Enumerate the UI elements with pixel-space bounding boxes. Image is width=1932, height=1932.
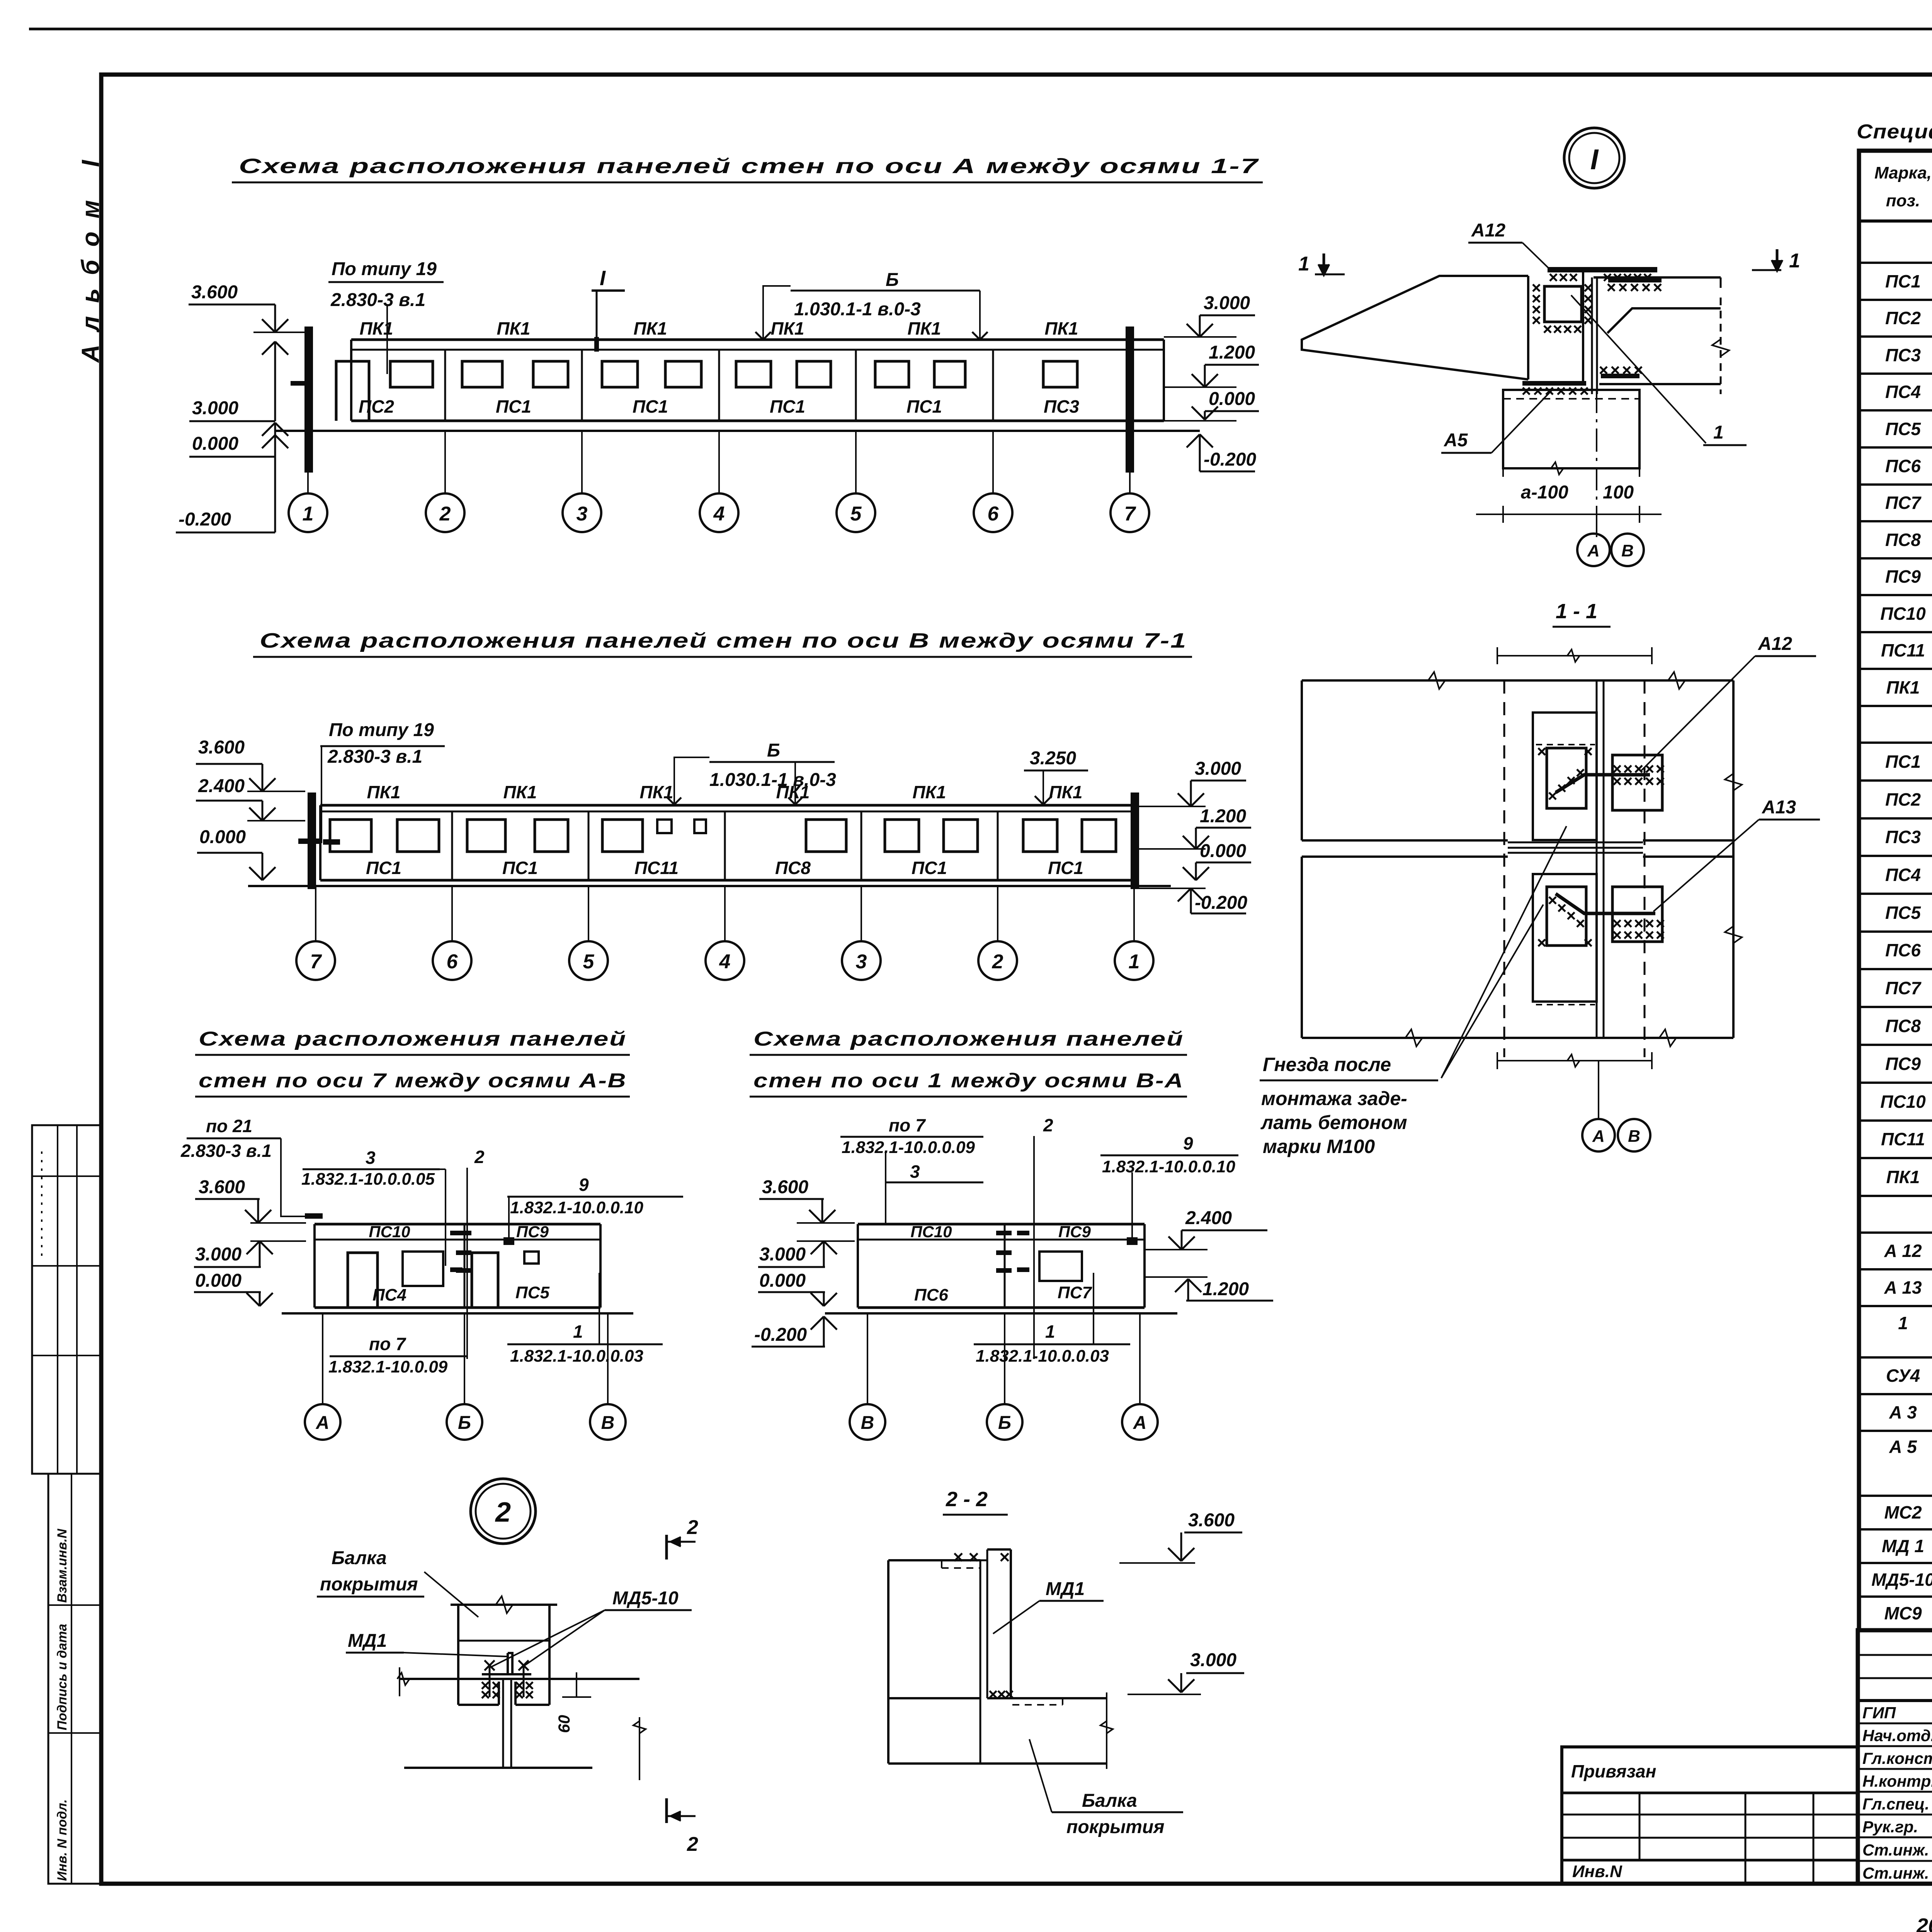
scheme 1 window opening: [602, 361, 638, 387]
svg-text:ПС11: ПС11: [1881, 1129, 1925, 1149]
band right edge: [599, 1224, 602, 1308]
svg-text:ПС7: ПС7: [1885, 493, 1922, 513]
svg-text:1: 1: [1298, 253, 1310, 275]
svg-text:1.832.1-10.0.0.05: 1.832.1-10.0.0.05: [301, 1170, 435, 1189]
spec row СУ4: [1859, 1393, 1932, 1395]
scheme 1 ground line: [275, 430, 1200, 432]
node I top anchor plate A12: [1548, 267, 1657, 272]
svg-text:А 5: А 5: [1889, 1437, 1917, 1457]
spec table frame: [1859, 151, 1932, 1630]
svg-text:Марка,: Марка,: [1874, 163, 1932, 182]
scheme 2 window opening: [1023, 820, 1057, 852]
node 2 section flag bottom: [665, 1798, 668, 1823]
svg-text:ПС5: ПС5: [515, 1283, 549, 1302]
svg-text:Н.контр.: Н.контр.: [1862, 1772, 1932, 1790]
svg-text:Балка: Балка: [1082, 1791, 1137, 1811]
node I section flag 1 left: [1323, 253, 1325, 275]
node 2 beam box: [451, 1604, 557, 1606]
svg-text:ПС4: ПС4: [1885, 382, 1921, 402]
svg-text:3.000: 3.000: [1204, 293, 1250, 313]
svg-text:1.832.1-10.0.0.10: 1.832.1-10.0.0.10: [1102, 1157, 1235, 1176]
scheme 2 window opening: [1082, 820, 1116, 852]
opening: [348, 1253, 378, 1308]
scheme 2 window opening: [397, 820, 439, 852]
left margin upper grid: [32, 1125, 102, 1474]
svg-text:покрытия: покрытия: [1066, 1817, 1165, 1837]
spec row ПС10: [1859, 1119, 1932, 1122]
scheme 2 band second line: [320, 811, 1134, 813]
svg-text:2: 2: [687, 1516, 698, 1539]
svg-text:А12: А12: [1758, 634, 1792, 654]
node I lower right plate: [1601, 374, 1639, 378]
scheme 2 panel joint at axis 2: [997, 811, 999, 880]
svg-text:Схема расположения панелей: Схема расположения панелей стен по оси А…: [239, 155, 1259, 178]
svg-text:ПК1: ПК1: [913, 782, 946, 802]
spec row ПС5: [1859, 930, 1932, 933]
scheme 1 roof slab line PK: [351, 338, 1164, 341]
svg-text:Схема расположения панелей: Схема расположения панелей стен по оси В…: [260, 629, 1187, 652]
svg-text:ПС6: ПС6: [1885, 940, 1921, 960]
spec row ПС7: [1859, 520, 1932, 522]
opening: [1039, 1252, 1082, 1281]
node 2 right extension: [639, 1717, 640, 1780]
scheme 2 window opening: [602, 820, 643, 852]
scheme 2 panel joint at axis 4: [724, 811, 726, 880]
scheme 2 axis line 1: [1133, 886, 1135, 941]
scheme 2 panel joint at axis 5: [588, 811, 590, 880]
svg-text:60: 60: [555, 1715, 573, 1733]
svg-text:А 3: А 3: [1889, 1402, 1917, 1422]
section 2-2 dashed recess: [942, 1567, 980, 1569]
title block frame: [1858, 1630, 1932, 1884]
svg-text:3.000: 3.000: [1195, 759, 1241, 779]
axis circle А: [305, 1404, 340, 1440]
svg-text:0.000: 0.000: [1209, 389, 1255, 409]
spec row ПС6: [1859, 968, 1932, 970]
svg-text:ПС5: ПС5: [1885, 903, 1921, 923]
svg-text:1: 1: [1129, 951, 1140, 973]
svg-text:-0.200: -0.200: [179, 509, 231, 530]
svg-text:ПС2: ПС2: [1885, 789, 1921, 810]
scheme 1 band second line: [351, 349, 1164, 351]
opening: [403, 1252, 443, 1286]
spec row ПК1: [1859, 1195, 1932, 1197]
scheme 2 axis circle 4: [706, 941, 744, 980]
scheme 1 column at axis 7: [1126, 327, 1134, 473]
svg-text:ПК1: ПК1: [497, 318, 531, 338]
scheme 2 window opening: [944, 820, 978, 852]
svg-text:2: 2: [439, 503, 451, 525]
scheme 1 axis line 5: [855, 431, 857, 493]
spec row ПС8: [1859, 1044, 1932, 1046]
svg-text:20967-01: 20967-01: [1916, 1914, 1932, 1932]
axis line Б: [1004, 1313, 1005, 1404]
node 2 beam inner line MD1 level: [458, 1640, 549, 1642]
svg-text:ПС9: ПС9: [516, 1223, 549, 1241]
svg-text:МД1: МД1: [348, 1631, 387, 1651]
svg-text:3.000: 3.000: [1190, 1650, 1236, 1670]
svg-text:Б: Б: [998, 1413, 1011, 1433]
node 2 slab top line 3.000: [400, 1678, 639, 1680]
svg-text:0.000: 0.000: [192, 434, 238, 454]
svg-text:ПС11: ПС11: [634, 858, 679, 878]
svg-text:ПК1: ПК1: [1045, 318, 1078, 338]
spec row ПК1: [1859, 705, 1932, 707]
node 2 weld crosses right: [516, 1682, 523, 1689]
band bottom line: [858, 1306, 1145, 1309]
scheme 2 panel joint at axis 3: [861, 811, 862, 880]
scheme 1 axis line 3: [581, 431, 583, 493]
svg-text:2: 2: [687, 1833, 698, 1855]
svg-text:I: I: [600, 267, 606, 290]
svg-text:7: 7: [310, 951, 322, 973]
spec row ПС2: [1859, 335, 1932, 338]
svg-text:ПС3: ПС3: [1044, 396, 1079, 417]
svg-text:ПК1: ПК1: [1049, 782, 1083, 802]
band strip line: [858, 1239, 1145, 1241]
scheme 2 axis line 3: [861, 886, 862, 941]
svg-text:1.832.1-10.0.0.03: 1.832.1-10.0.0.03: [976, 1347, 1109, 1366]
svg-text:Инв.N: Инв.N: [1572, 1862, 1622, 1881]
svg-text:стен по оси 1 между осями: стен по оси 1 между осями В-А: [753, 1070, 1184, 1092]
svg-text:По типу 19: По типу 19: [332, 259, 437, 279]
svg-text:ПС8: ПС8: [1885, 1016, 1921, 1036]
svg-text:СУ4: СУ4: [1886, 1366, 1920, 1386]
scheme 2 window opening: [694, 820, 706, 833]
scheme 1 panel joint at axis 3: [581, 350, 583, 421]
scheme 1 panel joint at axis 2: [444, 350, 446, 421]
svg-text:Гл.констр.: Гл.констр.: [1862, 1749, 1932, 1767]
svg-text:3: 3: [366, 1148, 376, 1168]
svg-text:Рук.гр.: Рук.гр.: [1862, 1818, 1918, 1836]
scheme 1 axis line 4: [718, 431, 720, 493]
note gnezda leaders: [1441, 826, 1566, 1078]
panel joint at axis B: [464, 1224, 466, 1308]
svg-text:ПС7: ПС7: [1885, 978, 1922, 998]
section 1-1 top dim line: [1497, 655, 1652, 656]
spec row А 12: [1859, 1268, 1932, 1270]
svg-text:5: 5: [850, 503, 862, 525]
spec row ПС4: [1859, 893, 1932, 895]
section 1-1 joint middle lines: [1508, 842, 1643, 844]
svg-text:МД 1: МД 1: [1882, 1536, 1924, 1556]
svg-text:3: 3: [577, 503, 588, 525]
spec row ПС7: [1859, 1006, 1932, 1008]
svg-text:100: 100: [1603, 482, 1634, 503]
svg-text:-0.200: -0.200: [754, 1325, 807, 1345]
spec row А 13: [1859, 1305, 1932, 1307]
opening: [524, 1252, 539, 1264]
svg-text:1.832.1-10.0.0.03: 1.832.1-10.0.0.03: [510, 1347, 643, 1366]
spec row A5 list: [1859, 1495, 1932, 1497]
section 2-2 dashed seat: [1012, 1704, 1063, 1706]
panel joint at axis B: [1004, 1224, 1006, 1308]
scheme 2 band right edge: [1133, 805, 1135, 880]
svg-text:ПС1: ПС1: [912, 858, 947, 878]
scheme 2 axis line 4: [724, 886, 726, 941]
scheme 2 axis line 7: [315, 886, 316, 941]
svg-text:А12: А12: [1471, 220, 1505, 241]
section 1-1 axis to circles: [1598, 1061, 1599, 1119]
scheme 2 column at axis 1: [1131, 793, 1139, 889]
svg-text:Схема расположения панелей: Схема расположения панелей: [753, 1028, 1184, 1050]
svg-text:ПС4: ПС4: [1885, 865, 1921, 885]
scheme 1 window opening: [875, 361, 909, 387]
svg-text:ПС10: ПС10: [1880, 604, 1926, 624]
scheme 2 ground line: [248, 885, 1171, 887]
svg-text:6: 6: [988, 503, 999, 525]
axis circle А: [1122, 1404, 1158, 1440]
svg-text:А: А: [1133, 1413, 1147, 1433]
node I bottom plate: [1522, 381, 1586, 386]
spec row ПС9: [1859, 1082, 1932, 1084]
scheme 2 panel joint at axis 6: [451, 811, 453, 880]
svg-text:3.600: 3.600: [198, 737, 245, 758]
svg-text:А 12: А 12: [1884, 1241, 1922, 1261]
node I section flag 1 right: [1776, 249, 1779, 271]
spec section header metal items: [1859, 1231, 1932, 1234]
node I dim line: [1503, 468, 1639, 469]
svg-text:3.000: 3.000: [192, 398, 238, 418]
scheme 1 axis line 7: [1129, 431, 1131, 493]
node 2 anchor plate MD1: [482, 1673, 531, 1675]
svg-text:1.200: 1.200: [1209, 342, 1255, 363]
svg-text:3.250: 3.250: [1030, 748, 1076, 769]
svg-text:2: 2: [474, 1147, 485, 1167]
svg-text:3.600: 3.600: [1188, 1510, 1235, 1531]
svg-text:Б: Б: [886, 270, 899, 290]
svg-text:Взам.инв.N: Взам.инв.N: [55, 1528, 70, 1603]
section 2-2 slab right end: [1106, 1692, 1107, 1769]
svg-text:1: 1: [1789, 250, 1800, 272]
section 1-1 lower right plate: [1612, 887, 1662, 942]
spec row ПС6: [1859, 483, 1932, 486]
node 2 panel bottom line: [404, 1767, 592, 1769]
scheme 2 axis circle 3: [842, 941, 881, 980]
svg-text:МД1: МД1: [1046, 1579, 1085, 1599]
svg-text:1.030.1-1 в.0-3: 1.030.1-1 в.0-3: [794, 299, 921, 320]
axis circle В: [850, 1404, 885, 1440]
joint section ticks: [996, 1231, 1012, 1235]
section 2-2 slab bottom: [888, 1762, 1107, 1765]
spec section header -30°С: [1859, 705, 1932, 707]
svg-text:ПК1: ПК1: [908, 318, 941, 338]
node I circle: [1564, 128, 1624, 188]
svg-text:ПС3: ПС3: [1885, 345, 1921, 365]
svg-text:3: 3: [910, 1162, 920, 1182]
svg-text:ПС2: ПС2: [1885, 308, 1921, 328]
svg-text:Ст.инж.: Ст.инж.: [1862, 1841, 1929, 1859]
scheme 1 window opening: [665, 361, 701, 387]
svg-text:В: В: [601, 1413, 615, 1433]
svg-text:А13: А13: [1762, 797, 1796, 818]
node 2 circle: [471, 1479, 536, 1544]
svg-text:I: I: [1590, 143, 1599, 175]
section 1-1 dashed panel edges: [1503, 680, 1505, 1057]
axis line А: [1139, 1313, 1141, 1404]
svg-text:6: 6: [447, 951, 458, 973]
scheme 2 axis line 5: [588, 886, 589, 941]
svg-text:ПС7: ПС7: [1058, 1283, 1092, 1302]
svg-text:МС9: МС9: [1884, 1603, 1922, 1623]
node 2 section flag top: [665, 1535, 668, 1560]
svg-text:1.200: 1.200: [1202, 1279, 1249, 1299]
svg-text:ПС10: ПС10: [1880, 1092, 1926, 1112]
svg-text:ПС10: ПС10: [910, 1223, 952, 1241]
scheme 2 window opening: [330, 820, 371, 852]
svg-text:3: 3: [856, 951, 867, 973]
svg-text:по 7: по 7: [889, 1115, 926, 1135]
svg-text:А: А: [1592, 1127, 1605, 1146]
svg-text:Подпись и дата: Подпись и дата: [55, 1624, 70, 1730]
svg-text:2: 2: [495, 1497, 511, 1528]
scheme 1 window opening: [1043, 361, 1077, 387]
svg-text:3.600: 3.600: [199, 1177, 245, 1197]
svg-text:ПС9: ПС9: [1885, 566, 1921, 587]
spec row ПС3: [1859, 372, 1932, 375]
axis line Б: [464, 1313, 465, 1404]
node I column I-beam flange: [1591, 277, 1593, 394]
axis line А: [322, 1313, 323, 1404]
svg-text:1.832.1-10.0.0.09: 1.832.1-10.0.0.09: [842, 1138, 975, 1157]
ground line: [825, 1312, 1177, 1315]
section 1-1 column center lines: [1596, 680, 1598, 1038]
svg-text:ПС3: ПС3: [1885, 827, 1921, 847]
node I right slab: [1594, 276, 1721, 279]
svg-text:1: 1: [303, 503, 314, 525]
svg-text:Привязан: Привязан: [1571, 1761, 1656, 1781]
spec row МД5-10: [1859, 1595, 1932, 1598]
scheme 2 band left edge: [319, 805, 321, 880]
svg-text:Схема расположения панелей: Схема расположения панелей: [199, 1028, 627, 1050]
svg-text:2.400: 2.400: [1185, 1208, 1232, 1228]
scheme 1 panel joint at axis 5: [855, 350, 857, 421]
ground line: [282, 1312, 633, 1315]
scheme 1 zero level tick: [291, 381, 311, 386]
scheme 2 window opening: [806, 820, 846, 852]
spec table header row line: [1859, 219, 1932, 223]
svg-text:3.600: 3.600: [191, 282, 238, 303]
scheme 1 window opening: [462, 361, 502, 387]
section 1-1 lower socket: [1533, 874, 1597, 1002]
svg-text:ПС9: ПС9: [1058, 1223, 1091, 1241]
scheme 2 zero level tick: [298, 838, 320, 844]
scheme 1 column at axis 1: [304, 327, 313, 473]
node 2 dim 60: [576, 1672, 577, 1697]
node 2 weld crosses left: [482, 1682, 489, 1689]
scheme 2 axis circle 2: [978, 941, 1017, 980]
spec row ПС4: [1859, 409, 1932, 412]
svg-text:Спецификация элементов стено: Спецификация элементов стеновых панелей …: [1857, 121, 1932, 143]
svg-text:монтажа заде-: монтажа заде-: [1261, 1088, 1407, 1109]
svg-text:1.030.1-1 в.0-3: 1.030.1-1 в.0-3: [709, 770, 836, 790]
svg-text:2.830-3 в.1: 2.830-3 в.1: [330, 290, 425, 310]
svg-text:7: 7: [1124, 503, 1136, 525]
scheme 1 window opening: [533, 361, 568, 387]
node I axis circles: [1596, 514, 1597, 534]
band top line: [315, 1223, 600, 1226]
title block person rows: [1858, 1723, 1932, 1725]
axis line В: [607, 1313, 609, 1404]
svg-text:1: 1: [1045, 1321, 1055, 1342]
svg-text:ПС10: ПС10: [369, 1223, 410, 1241]
section 2-2 slab top: [987, 1697, 1107, 1699]
scheme 1 axis circle 5: [837, 493, 875, 532]
axis circle Б: [987, 1404, 1022, 1440]
spec row 1 ugolok: [1859, 1356, 1932, 1359]
scheme 2 window opening: [467, 820, 505, 852]
spec row ПС11: [1859, 668, 1932, 670]
svg-text:ПС8: ПС8: [1885, 530, 1921, 550]
band right edge: [1143, 1224, 1146, 1308]
svg-text:ПК1: ПК1: [503, 782, 537, 802]
section 1-1 upper right plate: [1612, 755, 1662, 810]
spec row ПС8: [1859, 557, 1932, 560]
svg-text:ПС11: ПС11: [1881, 640, 1925, 660]
axis line В: [867, 1313, 868, 1404]
svg-text:ПС1: ПС1: [770, 396, 805, 417]
spec section header -20°С: [1859, 220, 1932, 222]
svg-text:1: 1: [1713, 422, 1724, 443]
spec row ПС1: [1859, 779, 1932, 782]
scheme 2 window opening: [535, 820, 568, 852]
svg-text:А 13: А 13: [1884, 1277, 1922, 1298]
left margin dashed marks: [41, 1151, 43, 1260]
svg-text:а-100: а-100: [1521, 482, 1568, 503]
opening: [472, 1253, 498, 1308]
svg-text:1: 1: [1898, 1313, 1908, 1333]
scheme 2 axis circle 1: [1115, 941, 1153, 980]
svg-text:поз.: поз.: [1886, 191, 1920, 210]
svg-text:4: 4: [713, 503, 725, 525]
section 1-1 lower anchor bar A13: [1556, 894, 1655, 913]
scheme 1 axis line 6: [992, 431, 994, 493]
left margin label strip: [48, 1474, 102, 1884]
axis circle Б: [447, 1404, 482, 1440]
svg-text:3.000: 3.000: [195, 1244, 241, 1265]
svg-text:Инв. N подл.: Инв. N подл.: [55, 1799, 70, 1881]
svg-text:Б: Б: [458, 1413, 471, 1433]
svg-text:ПС8: ПС8: [775, 858, 811, 878]
svg-text:Ст.инж.: Ст.инж.: [1862, 1864, 1929, 1882]
svg-text:Гл.спец.: Гл.спец.: [1862, 1795, 1929, 1813]
band bottom line: [315, 1306, 600, 1309]
section 1-1 upper panel outline: [1302, 679, 1733, 682]
svg-text:2.830-3 в.1: 2.830-3 в.1: [327, 747, 422, 767]
section 1-1 lower panel outline: [1302, 855, 1508, 858]
scheme 1 band left edge: [350, 340, 352, 421]
scheme 2 band bottom line: [320, 879, 1134, 882]
section 1-1 axis circle A: [1582, 1119, 1615, 1151]
section 1-1 upper socket: [1533, 713, 1597, 840]
svg-text:ПС6: ПС6: [1885, 456, 1921, 476]
svg-text:ПК1: ПК1: [1886, 1167, 1920, 1187]
svg-text:ПС9: ПС9: [1885, 1054, 1921, 1074]
svg-text:4: 4: [719, 951, 731, 973]
svg-text:5: 5: [583, 951, 595, 973]
scheme 2 window opening: [885, 820, 919, 852]
svg-text:0.000: 0.000: [199, 827, 246, 847]
svg-text:ГИП: ГИП: [1862, 1704, 1896, 1722]
svg-text:ПС1: ПС1: [502, 858, 538, 878]
section 2-2 upper panel MD1: [1010, 1549, 1012, 1698]
scheme 2 roof slab line PK: [320, 804, 1134, 807]
section 2-2 joint lines: [980, 1560, 981, 1764]
svg-text:Балка: Балка: [332, 1548, 387, 1568]
svg-text:-0.200: -0.200: [1195, 893, 1247, 913]
svg-text:3.600: 3.600: [762, 1177, 808, 1197]
axis circle В: [590, 1404, 626, 1440]
